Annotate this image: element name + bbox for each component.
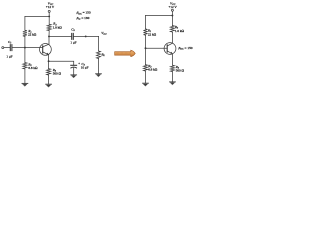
resistor R1 22 kOhm (left) — [23, 29, 37, 36]
capacitor C1 1uF — [6, 40, 12, 59]
wire output corner to RL — [98, 36, 100, 51]
svg-text:22 kΩ: 22 kΩ — [148, 32, 157, 36]
input terminal (left) — [2, 47, 4, 49]
junction dot output node — [85, 35, 87, 37]
power terminal VCC (left circuit) — [48, 10, 50, 12]
junction dot base node (right) — [145, 47, 147, 49]
junction dot base node (left) — [24, 47, 26, 49]
capacitor C3 1uF — [70, 28, 76, 45]
junction dot at VCC rail (left) — [48, 15, 50, 17]
resistor R4 560 Ohm (left) — [47, 68, 62, 76]
junction dot collector node (left) — [48, 35, 50, 37]
wire R3 top lead (left) — [48, 16, 50, 24]
label beta_ac = 160 (left circuit) — [76, 16, 90, 21]
svg-text:βac = 160: βac = 160 — [76, 16, 90, 21]
resistor R1 22 kOhm (right) — [143, 29, 156, 37]
label beta_DC = 150 (right circuit) — [178, 46, 193, 51]
resistor RL (left) — [96, 51, 105, 58]
svg-text:+12 V: +12 V — [169, 5, 178, 9]
junction dot emitter node (left) — [48, 60, 50, 62]
resistor R2 6.8 kOhm (left) — [23, 62, 38, 70]
wire VCC to rail (right) — [171, 11, 173, 15]
svg-text:6.8 kΩ: 6.8 kΩ — [148, 68, 158, 72]
svg-text:1 μF: 1 μF — [70, 40, 76, 44]
wire collector node to C3 — [49, 35, 71, 37]
ground (below R4, left) — [46, 83, 52, 85]
capacitor C2 10uF (polarized) — [71, 62, 89, 70]
svg-text:Vout: Vout — [101, 31, 107, 36]
svg-text:560 Ω: 560 Ω — [53, 72, 62, 76]
junction dot at VCC rail (right) — [171, 15, 173, 17]
wire R1 to base node (left) — [24, 36, 26, 47]
label beta_DC = 150 (left circuit) — [76, 11, 91, 16]
wire R2 to ground (right) — [145, 71, 147, 83]
wire R2 to ground (left) — [24, 69, 26, 84]
resistor R2 6.8 kOhm (right) — [143, 64, 157, 72]
resistor R3 1.0 kOhm (left) — [47, 22, 62, 31]
svg-text:22 kΩ: 22 kΩ — [28, 33, 37, 37]
transition block arrow — [115, 50, 136, 56]
wire C3 to output corner — [74, 35, 99, 37]
wire R4 to ground (left) — [48, 75, 50, 84]
svg-text:1.0 kΩ: 1.0 kΩ — [53, 26, 63, 30]
svg-text:6.8 kΩ: 6.8 kΩ — [28, 66, 38, 70]
ground (below R2, left) — [22, 82, 28, 84]
wire VCC to rail (left) — [48, 12, 50, 16]
wire R1 to base node (right) — [145, 35, 147, 48]
wire C2 to ground — [73, 68, 75, 75]
transistor Q1 (right, NPN) — [164, 32, 176, 65]
wire emitter node to C2 — [49, 61, 74, 65]
net VCC label (left circuit) — [46, 1, 55, 9]
wire RL to ground — [98, 59, 100, 74]
net VCC label (right circuit) — [169, 1, 178, 9]
svg-text:RL: RL — [101, 53, 106, 58]
wire input to C1 — [4, 47, 10, 49]
wire base node to R2 (left) — [24, 48, 26, 63]
wire base node to R2 (right) — [145, 48, 147, 64]
wire C1 to transistor base (left) — [12, 47, 42, 49]
svg-text:1 μF: 1 μF — [6, 54, 12, 58]
power terminal VCC (right circuit) — [171, 9, 173, 11]
ground (below RL) — [96, 73, 102, 75]
wire R4 to ground (right) — [172, 72, 174, 82]
svg-text:560 Ω: 560 Ω — [176, 68, 185, 72]
svg-text:C1: C1 — [8, 40, 11, 45]
svg-text:βDC = 150: βDC = 150 — [178, 46, 193, 51]
ground (below C2) — [71, 74, 77, 76]
ground (below R4, right) — [170, 81, 176, 83]
svg-text:C3: C3 — [71, 28, 75, 33]
svg-text:+12 V: +12 V — [46, 5, 55, 9]
wire base node to transistor base (right) — [146, 47, 168, 49]
svg-text:10 μF: 10 μF — [81, 66, 89, 70]
node Vout label — [101, 31, 107, 36]
resistor R4 560 Ohm (right) — [170, 65, 184, 73]
wire R1 top lead (left) — [24, 16, 26, 30]
resistor R3 1.0 kOhm (right) — [170, 25, 184, 33]
ground (below R2, right) — [143, 82, 149, 84]
svg-text:βDC = 150: βDC = 150 — [76, 11, 91, 16]
wire R3 top lead (right) — [171, 16, 173, 26]
wire R1 top lead (right) — [145, 16, 147, 29]
wire emitter node to R4 (left) — [48, 61, 50, 68]
svg-text:1.0 kΩ: 1.0 kΩ — [175, 29, 185, 33]
wire top rail (left) — [25, 15, 49, 17]
transistor Q1 (left, NPN) — [40, 36, 52, 61]
wire R3 to collector node (left) — [48, 31, 50, 37]
wire top rail (right) — [146, 15, 173, 17]
